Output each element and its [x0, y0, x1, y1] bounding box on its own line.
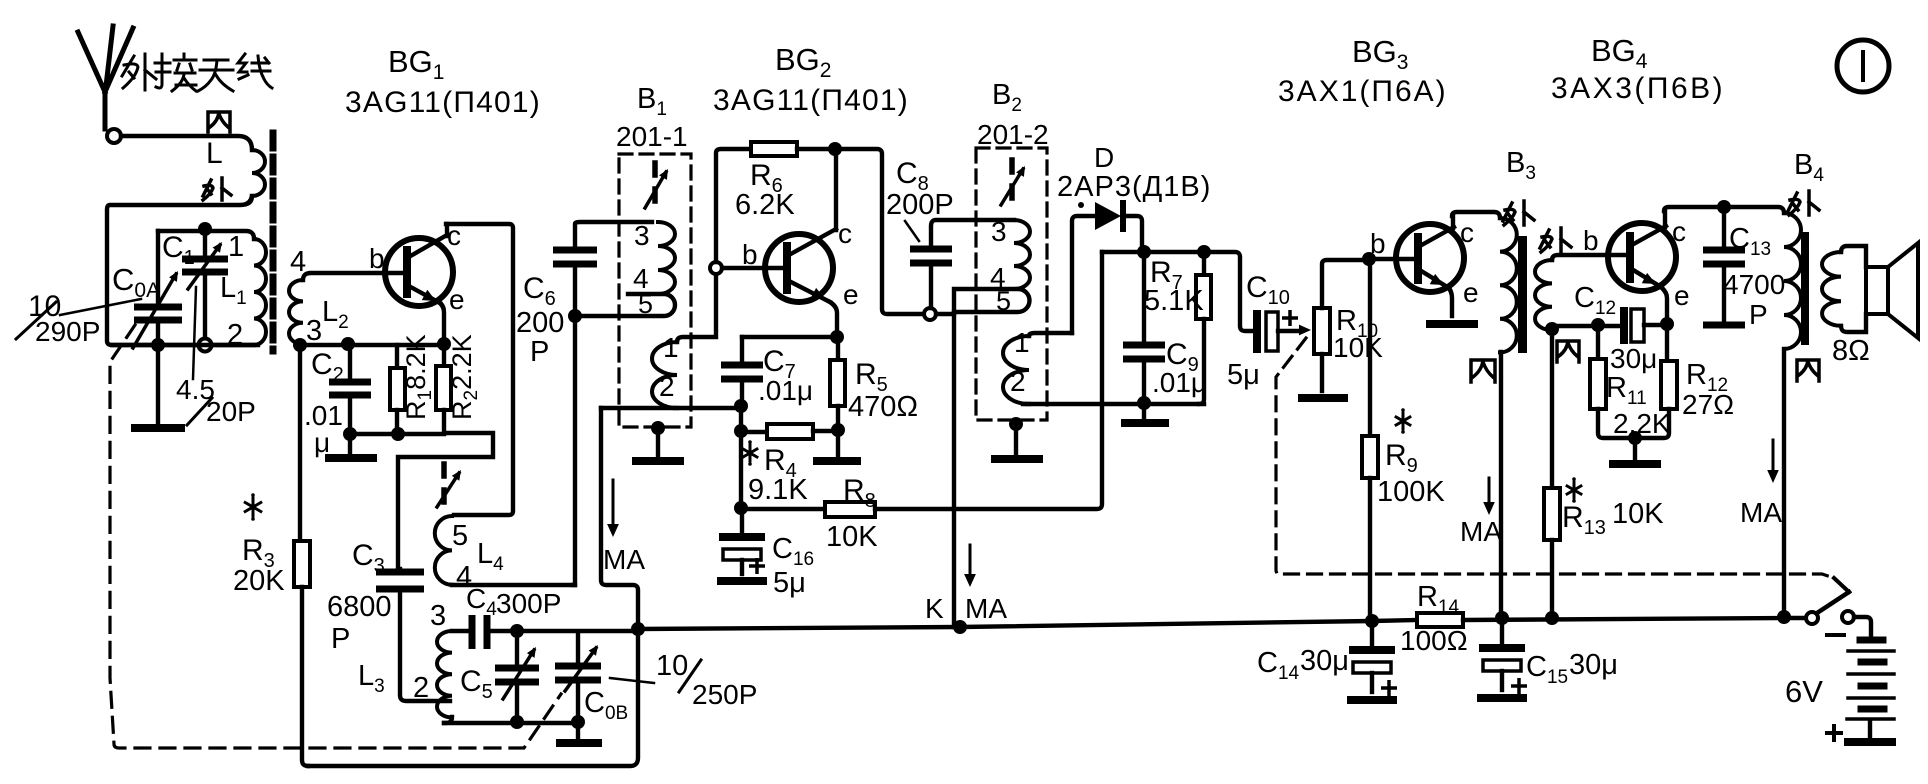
ground (R5): [813, 457, 861, 465]
wire main supply bus: [638, 620, 1417, 629]
reference mark (R9): [1396, 413, 1410, 429]
coil L antenna rod winding: [252, 150, 265, 196]
svg-text:300P: 300P: [496, 588, 561, 619]
svg-text:2: 2: [1010, 366, 1026, 397]
label 外 (outer tap): [203, 178, 231, 200]
wire C8 node to B2 tap5: [936, 312, 954, 316]
wire B2 tap5 down to K-MA bus: [952, 312, 956, 627]
ground (B2): [991, 455, 1043, 463]
capacitor C2: [348, 345, 352, 377]
label 内 (inner tap): [208, 112, 230, 132]
svg-text:1: 1: [1014, 327, 1030, 358]
battery 6V: [1860, 637, 1883, 644]
transformer B3 core: [1518, 236, 1527, 353]
node C8 bottom junction (open): [924, 308, 936, 320]
wire diode cathode to detector node: [1125, 216, 1142, 252]
transistor BG2 emitter junction: [830, 330, 844, 344]
transformer B2 shield box (dashed): [976, 148, 1047, 420]
wire B3 sec bottom to R13: [1550, 330, 1554, 488]
transistor BG2: [765, 234, 833, 302]
capacitor C4: [452, 629, 468, 633]
diode D: [1095, 202, 1121, 230]
label 内 (B3 primary): [1471, 360, 1495, 382]
svg-text:200P: 200P: [886, 189, 954, 221]
svg-text:201-2: 201-2: [977, 119, 1049, 150]
coil L3: [437, 631, 452, 717]
resistor R4: [741, 430, 767, 434]
capacitor C16 (electrolytic): [740, 509, 744, 533]
capacitor C7: [740, 337, 744, 361]
junction R1 bottom: [391, 427, 405, 441]
svg-text:b: b: [1370, 228, 1386, 259]
junction base node BG3: [1362, 252, 1376, 266]
wire B1 sec tap2 down to supply bus: [601, 408, 638, 629]
junction C6/B1 tap5: [568, 309, 582, 323]
potentiometer R10: [1314, 308, 1330, 354]
wire osc top node: [517, 629, 634, 633]
junction bus/C14: [1365, 614, 1379, 628]
label 外 (B3 primary): [1503, 201, 1534, 225]
ground bar (C13): [1703, 322, 1745, 329]
speaker: [1866, 267, 1888, 314]
wire C7 top to emitter: [742, 335, 837, 339]
junction BG1 emitter node: [437, 337, 451, 351]
svg-text:c: c: [1672, 216, 1686, 247]
svg-text:3: 3: [306, 315, 322, 347]
label minus (battery): [1827, 633, 1844, 637]
capacitor C8: [931, 220, 1014, 245]
meter arrow MA (BG1 stage): [612, 480, 615, 526]
svg-text:250P: 250P: [692, 679, 757, 710]
reference mark (R3): [245, 498, 261, 516]
svg-text:100K: 100K: [1377, 476, 1445, 508]
svg-text:.01μ: .01μ: [1152, 367, 1207, 398]
ground bar (C14): [1347, 696, 1397, 704]
svg-text:2: 2: [413, 672, 429, 704]
junction R11 top: [1591, 318, 1605, 332]
switch lever: [1817, 592, 1849, 613]
resistor R8: [741, 507, 825, 511]
svg-text:27Ω: 27Ω: [1682, 389, 1734, 420]
wire L2 bottom node: [300, 343, 444, 347]
svg-text:10K: 10K: [826, 521, 878, 553]
label 内 (B4): [1797, 360, 1819, 381]
wire tank top node: [158, 231, 254, 239]
ground bar (C15): [1477, 694, 1527, 702]
resistor R7: [1202, 252, 1206, 275]
svg-text:e: e: [843, 279, 859, 310]
svg-text:30μ: 30μ: [1300, 645, 1349, 677]
ground (BG3 emitter): [1426, 320, 1478, 328]
svg-text:30μ: 30μ: [1610, 343, 1657, 374]
wire tank bottom node: [112, 343, 254, 347]
switch contact left: [1806, 612, 1818, 624]
svg-text:.01μ: .01μ: [758, 375, 813, 406]
junction C0A bottom: [151, 338, 165, 352]
wire switch to battery: [1854, 617, 1871, 636]
decorative dot: [1078, 202, 1084, 208]
meter arrow MA (BG4 stage): [1772, 440, 1775, 472]
svg-text:5: 5: [452, 520, 468, 552]
label 外 (B4): [1788, 191, 1819, 215]
junction B1 ground: [651, 421, 665, 435]
svg-text:K: K: [925, 593, 944, 624]
svg-text:e: e: [449, 284, 465, 315]
junction detector/C9: [1137, 245, 1151, 259]
svg-text:6V: 6V: [1785, 674, 1823, 709]
wire B2 secondary bottom line: [1023, 402, 1204, 406]
ground (R11/R12): [1609, 460, 1661, 468]
svg-text:470Ω: 470Ω: [848, 391, 918, 423]
svg-text:4700: 4700: [1723, 269, 1785, 300]
svg-text:6.2K: 6.2K: [735, 189, 795, 221]
ground (C0A): [131, 424, 185, 432]
svg-text:3AG11(П401): 3AG11(П401): [713, 84, 909, 117]
junction C5 bottom: [510, 715, 524, 729]
capacitor C0B (variable): [576, 632, 580, 662]
wire BG3 collector to B3: [1452, 212, 1500, 218]
svg-text:8Ω: 8Ω: [1832, 335, 1870, 367]
svg-text:b: b: [369, 243, 385, 274]
transformer B1 core adjust arrow: [652, 163, 658, 201]
junction R11/R12 bottom: [1628, 431, 1642, 445]
svg-text:1: 1: [228, 231, 244, 263]
junction bus/C15: [1495, 611, 1509, 625]
svg-text:P: P: [1749, 299, 1768, 330]
svg-text:P: P: [530, 336, 549, 368]
svg-text:3AG11(П401): 3AG11(П401): [345, 86, 541, 119]
svg-text:R22.2K: R22.2K: [447, 334, 482, 420]
transistor BG3: [1396, 224, 1464, 292]
svg-text:2.2K: 2.2K: [1613, 408, 1671, 439]
ferrite rod core (dashed bar): [270, 133, 277, 351]
svg-text:10K: 10K: [1612, 498, 1664, 530]
svg-text:5μ: 5μ: [773, 567, 806, 599]
capacitor C12 (electrolytic): [1552, 324, 1618, 328]
resistor R14: [1417, 613, 1463, 627]
junction collector/C13: [1717, 200, 1731, 214]
svg-text:1: 1: [663, 332, 679, 363]
svg-text:100Ω: 100Ω: [1400, 625, 1468, 656]
junction bus/B4: [1777, 610, 1791, 624]
svg-text:MA: MA: [965, 593, 1007, 624]
svg-text:2: 2: [227, 319, 243, 351]
coil L4: [435, 516, 452, 585]
svg-text:290P: 290P: [35, 316, 100, 347]
volume gang link (dashed): [1276, 338, 1834, 578]
ground (R10): [1298, 394, 1348, 402]
junction C9 bottom: [1137, 396, 1151, 410]
node C1 bottom (open): [199, 339, 212, 352]
transformer B2 primary winding: [1014, 220, 1030, 289]
label 外 (B3 secondary): [1540, 228, 1571, 252]
resistor R1: [395, 345, 399, 368]
wire B1 secondary bottom line: [601, 406, 741, 410]
capacitor C14 (electrolytic): [1370, 621, 1374, 646]
transformer B1 secondary winding: [652, 342, 677, 408]
node antenna terminal: [107, 129, 121, 143]
wire B3 primary bottom down to bus: [1499, 352, 1503, 618]
capacitor C10 (electrolytic): [1253, 314, 1261, 349]
svg-text:b: b: [1583, 225, 1599, 256]
capacitor C15 (electrolytic): [1500, 618, 1504, 644]
svg-text:2: 2: [659, 371, 675, 402]
svg-text:R18.2K: R18.2K: [401, 334, 436, 420]
label 外接天线: [122, 54, 156, 90]
node BG2 base junction (open): [710, 262, 722, 274]
svg-text:10: 10: [656, 650, 688, 682]
reference mark (R4): [743, 445, 757, 461]
transformer B4 primary winding: [1784, 213, 1801, 349]
junction C2 top: [341, 337, 355, 351]
wire R1/C2 bottom rail: [350, 432, 444, 436]
svg-text:MA: MA: [1460, 516, 1502, 547]
resistor R11: [1596, 325, 1600, 359]
resistor R5: [836, 337, 840, 360]
svg-text:30μ: 30μ: [1569, 649, 1618, 681]
svg-text:MA: MA: [603, 544, 645, 575]
antenna ANT: [78, 26, 133, 129]
meter arrow MA (BG3 stage): [1488, 478, 1491, 505]
capacitor C5 (trimmer): [515, 636, 519, 664]
coil L1: [254, 239, 266, 345]
junction bus/L3 box: [631, 622, 645, 636]
junction K-MA: [953, 620, 967, 634]
wire R10 top to BG3 base: [1369, 257, 1417, 261]
capacitor C6: [575, 222, 652, 246]
svg-text:2AP3(Д1В): 2AP3(Д1В): [1057, 171, 1211, 203]
junction C4/C5 node: [510, 624, 524, 638]
transformer B2 core adjust arrow: [1009, 160, 1015, 198]
wire base circle to BG2: [722, 266, 787, 270]
wire B4 primary bottom to bus: [1782, 349, 1786, 617]
figure number (1): [1837, 40, 1889, 92]
svg-text:5: 5: [996, 286, 1011, 316]
svg-text:3AX3(П6В): 3AX3(П6В): [1551, 72, 1725, 105]
svg-text:5.1K: 5.1K: [1144, 285, 1204, 317]
ground (C2): [325, 454, 377, 462]
coil L4 core adjust arrow: [441, 464, 447, 502]
transistor BG1: [385, 238, 453, 306]
junction B3 sec bottom: [1545, 322, 1559, 336]
transformer B4 core: [1801, 232, 1809, 345]
svg-text:e: e: [1674, 280, 1690, 311]
capacitor C9: [1142, 252, 1146, 341]
svg-text:3: 3: [634, 220, 650, 251]
tuning gang link (dashed): [110, 325, 561, 748]
junction B2 ground: [1009, 417, 1023, 431]
wire stage box bottom and right edge: [308, 629, 638, 766]
wire L4 tap4 to C6 line: [452, 583, 575, 587]
junction R8 left: [734, 501, 748, 515]
capacitor C0A: [156, 231, 160, 303]
junction C1 top: [198, 222, 212, 236]
switch contact right: [1842, 611, 1854, 623]
transformer B1 shield box (dashed): [619, 154, 691, 427]
wire B2 sec top to diode anode: [1072, 216, 1094, 333]
junction C7 bottom: [734, 399, 748, 413]
wire detector node line: [1102, 252, 1252, 331]
transformer B3 primary winding: [1500, 218, 1517, 352]
ground (C16): [717, 577, 767, 585]
svg-text:c: c: [1460, 217, 1474, 248]
resistor R6: [716, 149, 751, 262]
wire BG1 collector to L4: [446, 224, 513, 515]
transistor BG4: [1608, 223, 1676, 291]
junction bus/R13: [1545, 611, 1559, 625]
svg-text:4: 4: [290, 246, 306, 278]
junction R6/collector: [828, 142, 842, 156]
wire osc bottom rail: [444, 721, 578, 725]
svg-text:10K: 10K: [1333, 332, 1383, 363]
svg-text:μ: μ: [314, 427, 330, 458]
svg-text:200: 200: [516, 307, 564, 339]
ground (B1): [632, 457, 684, 465]
reference mark (R13): [1567, 482, 1581, 498]
ground (C9): [1121, 419, 1169, 427]
svg-text:6800: 6800: [327, 591, 392, 623]
wire R4 node down to R8 line: [739, 431, 743, 509]
svg-text:MA: MA: [1740, 497, 1782, 528]
label plus (battery): [1825, 724, 1843, 742]
transformer B2 secondary winding: [1003, 336, 1029, 404]
junction BG4 emitter node: [1660, 317, 1674, 331]
svg-text:P: P: [331, 623, 350, 655]
transformer B4 secondary winding: [1822, 252, 1841, 326]
junction C2 bottom: [343, 427, 357, 441]
resistor R13: [1544, 488, 1560, 540]
junction detector/R7: [1197, 245, 1211, 259]
resistor R12: [1665, 324, 1669, 361]
svg-text:20K: 20K: [233, 565, 285, 597]
capacitor C3: [398, 569, 400, 570]
junction L2 bottom: [293, 338, 307, 352]
junction R4 right: [831, 423, 845, 437]
svg-text:9.1K: 9.1K: [748, 474, 808, 506]
wire collector to C8 node: [835, 149, 924, 314]
svg-text:3AX1(П6А): 3AX1(П6А): [1278, 75, 1448, 108]
svg-text:5: 5: [638, 289, 653, 319]
capacitor C13: [1722, 207, 1726, 246]
svg-text:c: c: [838, 218, 852, 249]
wire BG4 collector to B4: [1664, 207, 1784, 213]
svg-text:e: e: [1463, 277, 1479, 308]
svg-text:5μ: 5μ: [1227, 359, 1260, 391]
label 内 (B3 secondary): [1557, 341, 1579, 362]
resistor R3: [298, 345, 302, 541]
junction R4 left: [734, 424, 748, 438]
svg-text:b: b: [742, 239, 758, 270]
svg-text:3: 3: [430, 600, 446, 632]
svg-text:201-1: 201-1: [616, 121, 688, 152]
resistor R9: [1368, 259, 1372, 436]
meter arrow K-MA: [969, 545, 972, 576]
wire antenna to coil L and outer tap to tank bottom: [121, 136, 252, 150]
resistor R2: [442, 344, 446, 366]
svg-text:L: L: [206, 137, 223, 170]
transformer B3 secondary winding: [1535, 260, 1552, 330]
coil L2: [303, 273, 407, 280]
svg-text:3: 3: [991, 216, 1007, 247]
capacitor C1 (trimmer): [203, 234, 207, 255]
ground (C0B): [576, 722, 580, 738]
transformer B1 primary winding: [658, 222, 675, 294]
svg-text:D: D: [1094, 142, 1114, 173]
junction C0B bottom: [571, 715, 585, 729]
svg-text:20P: 20P: [206, 396, 256, 427]
